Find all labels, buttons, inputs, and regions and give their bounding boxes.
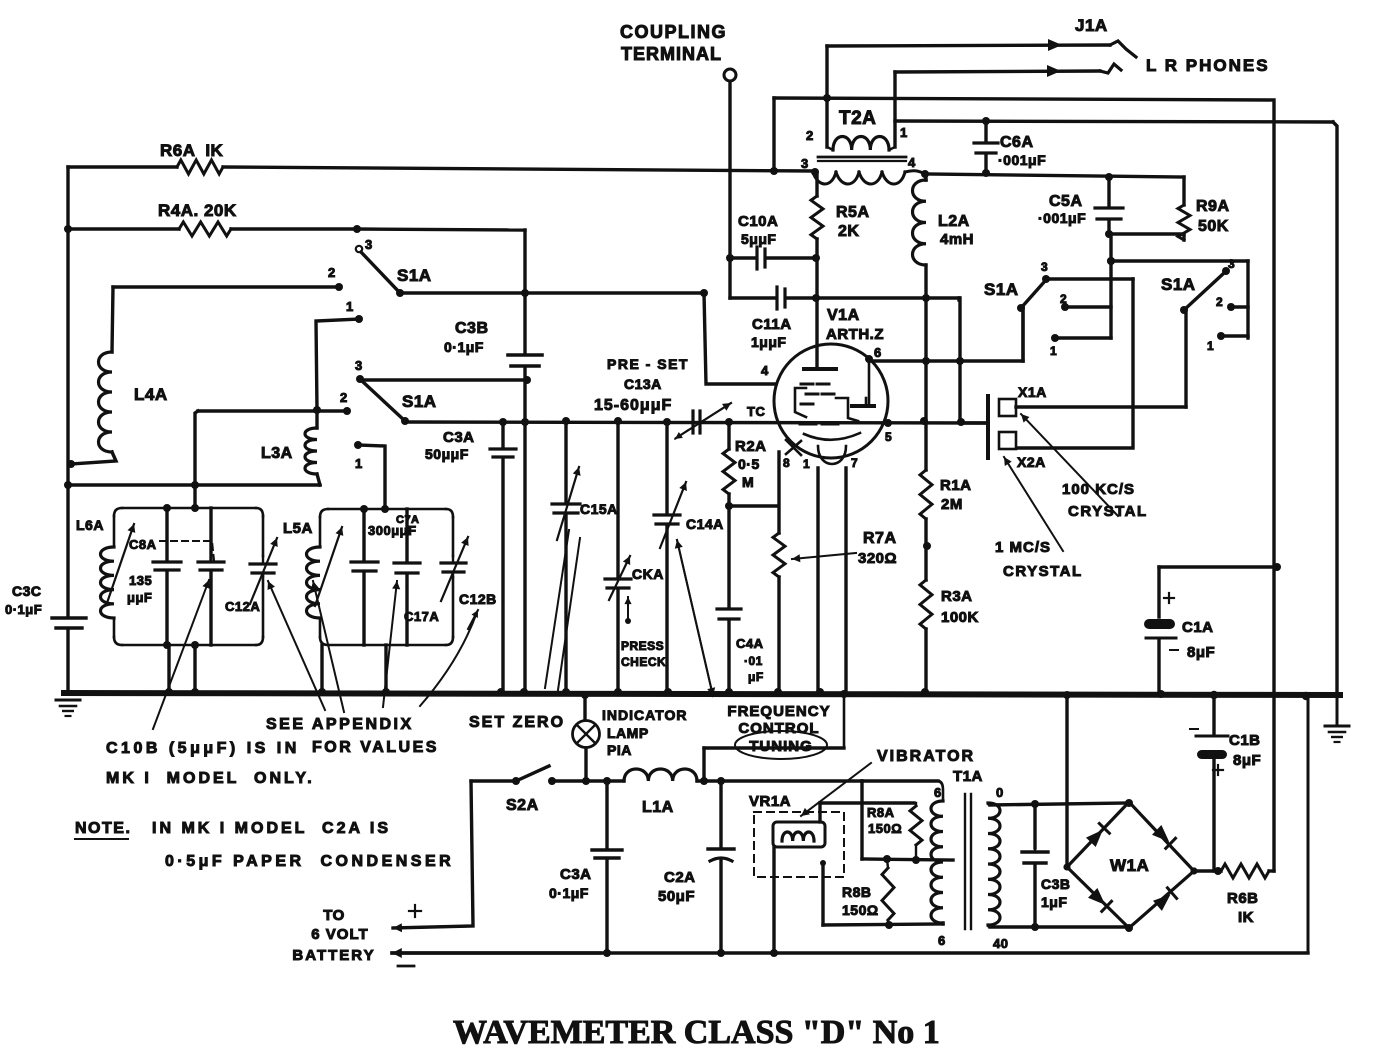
svg-text:IN MK I MODEL C2A IS: IN MK I MODEL C2A IS <box>152 820 391 837</box>
svg-text:0·1μF: 0·1μF <box>5 602 42 617</box>
svg-text:2: 2 <box>1060 292 1067 306</box>
svg-text:3: 3 <box>1228 257 1235 271</box>
svg-text:150Ω: 150Ω <box>868 821 902 836</box>
svg-text:1μμF: 1μμF <box>751 334 786 350</box>
svg-text:C10B (5μμF) IS IN: C10B (5μμF) IS IN <box>106 740 300 757</box>
svg-text:6: 6 <box>934 785 942 800</box>
svg-text:50μμF: 50μμF <box>425 446 469 462</box>
svg-text:BATTERY: BATTERY <box>292 947 375 964</box>
svg-text:L5A: L5A <box>283 520 313 537</box>
svg-text:7: 7 <box>851 456 858 470</box>
svg-text:6 VOLT: 6 VOLT <box>311 926 368 943</box>
svg-text:15-60μμF: 15-60μμF <box>594 397 672 414</box>
svg-text:2: 2 <box>328 265 336 280</box>
svg-text:4mH: 4mH <box>940 231 974 248</box>
svg-text:3: 3 <box>355 358 363 373</box>
svg-text:R4A. 20K: R4A. 20K <box>158 201 237 220</box>
svg-text:L R PHONES: L R PHONES <box>1146 56 1270 75</box>
svg-text:S1A: S1A <box>1161 275 1196 294</box>
svg-text:S2A: S2A <box>506 797 539 814</box>
svg-text:C3B: C3B <box>455 320 489 337</box>
svg-text:PRE - SET: PRE - SET <box>607 356 689 372</box>
svg-text:1 MC/S: 1 MC/S <box>995 539 1051 556</box>
svg-text:R6B: R6B <box>1227 890 1259 907</box>
svg-text:1: 1 <box>1050 344 1057 358</box>
svg-text:C10A: C10A <box>738 213 778 230</box>
svg-text:8μF: 8μF <box>1187 644 1215 661</box>
svg-text:C8A: C8A <box>129 537 157 552</box>
svg-text:150Ω: 150Ω <box>842 902 879 918</box>
svg-text:C3A: C3A <box>560 866 592 883</box>
svg-text:·01: ·01 <box>744 654 763 668</box>
svg-text:L4A: L4A <box>134 385 168 404</box>
svg-text:VIBRATOR: VIBRATOR <box>877 748 975 765</box>
svg-text:100 KC/S: 100 KC/S <box>1062 481 1135 498</box>
svg-text:C2A: C2A <box>664 869 696 886</box>
svg-text:CRYSTAL: CRYSTAL <box>1068 503 1148 520</box>
svg-text:50μF: 50μF <box>658 888 695 905</box>
svg-text:FOR VALUES: FOR VALUES <box>312 739 439 756</box>
svg-text:C11A: C11A <box>752 316 792 333</box>
svg-text:2: 2 <box>806 128 814 143</box>
svg-text:1: 1 <box>1207 339 1214 353</box>
svg-text:C17A: C17A <box>404 609 439 624</box>
svg-text:R9A: R9A <box>1196 198 1230 215</box>
svg-text:6: 6 <box>874 345 882 360</box>
svg-text:TERMINAL: TERMINAL <box>621 44 722 64</box>
svg-text:1: 1 <box>346 299 354 314</box>
svg-text:C12B: C12B <box>459 591 497 607</box>
svg-text:VR1A: VR1A <box>749 793 791 810</box>
svg-text:CHECK: CHECK <box>621 655 666 669</box>
svg-text:S1A: S1A <box>984 280 1019 299</box>
svg-text:135: 135 <box>129 573 152 588</box>
svg-text:R1A: R1A <box>940 477 972 494</box>
svg-text:0: 0 <box>996 785 1004 800</box>
svg-text:ARTH.Z: ARTH.Z <box>826 326 884 343</box>
svg-text:FREQUENCY: FREQUENCY <box>727 703 830 720</box>
svg-text:C14A: C14A <box>686 516 724 532</box>
svg-text:TO: TO <box>323 907 345 924</box>
svg-text:R5A: R5A <box>836 204 870 221</box>
svg-text:C1A: C1A <box>1182 619 1214 636</box>
svg-text:WAVEMETER CLASS "D" No 1: WAVEMETER CLASS "D" No 1 <box>453 1014 940 1051</box>
svg-text:R8A: R8A <box>867 805 895 820</box>
svg-text:R6A IK: R6A IK <box>160 141 224 160</box>
svg-text:SET ZERO: SET ZERO <box>469 714 565 731</box>
svg-text:L1A: L1A <box>642 799 674 816</box>
svg-text:MK I MODEL ONLY.: MK I MODEL ONLY. <box>106 770 315 787</box>
svg-text:0·5μF PAPER CONDENSER: 0·5μF PAPER CONDENSER <box>165 853 454 870</box>
svg-text:2: 2 <box>340 390 348 405</box>
svg-text:S1A: S1A <box>397 266 432 285</box>
svg-text:μμF: μμF <box>127 590 152 605</box>
svg-text:C15A: C15A <box>580 501 618 517</box>
svg-text:L6A: L6A <box>76 517 104 533</box>
svg-text:C4A: C4A <box>736 636 764 651</box>
svg-text:5: 5 <box>885 430 892 444</box>
svg-text:μF: μF <box>748 670 764 684</box>
svg-text:1μF: 1μF <box>1041 894 1067 910</box>
svg-text:320Ω: 320Ω <box>858 550 897 567</box>
svg-text:4: 4 <box>908 155 916 170</box>
svg-text:J1A: J1A <box>1075 16 1108 35</box>
svg-text:0·1μF: 0·1μF <box>549 885 589 901</box>
svg-text:0·5: 0·5 <box>738 456 760 472</box>
svg-text:T2A: T2A <box>839 108 876 129</box>
svg-text:8: 8 <box>783 456 790 470</box>
svg-text:1: 1 <box>900 125 908 140</box>
svg-text:W1A: W1A <box>1110 856 1149 875</box>
svg-text:R3A: R3A <box>941 588 973 605</box>
svg-text:R8B: R8B <box>842 884 872 900</box>
svg-text:300μμF: 300μμF <box>368 523 417 538</box>
svg-text:3: 3 <box>801 156 809 171</box>
svg-text:40: 40 <box>993 936 1008 951</box>
svg-text:IK: IK <box>1238 909 1254 926</box>
svg-text:PRESS: PRESS <box>621 639 664 653</box>
svg-text:3: 3 <box>1041 260 1048 274</box>
svg-text:TC: TC <box>747 404 765 419</box>
svg-text:3: 3 <box>365 237 373 252</box>
svg-text:C1B: C1B <box>1229 732 1261 749</box>
svg-text:·001μF: ·001μF <box>1038 210 1086 226</box>
svg-text:NOTE.: NOTE. <box>75 820 131 837</box>
svg-text:INDICATOR: INDICATOR <box>602 707 687 723</box>
svg-text:5μμF: 5μμF <box>741 231 776 247</box>
svg-text:TUNING: TUNING <box>749 738 813 755</box>
svg-text:2K: 2K <box>838 223 859 240</box>
svg-text:100K: 100K <box>941 609 979 626</box>
svg-text:COUPLING: COUPLING <box>620 22 727 42</box>
svg-text:4: 4 <box>761 363 769 378</box>
svg-text:0·1μF: 0·1μF <box>444 339 484 355</box>
svg-text:1: 1 <box>355 456 363 471</box>
svg-text:2: 2 <box>1216 295 1223 309</box>
svg-text:C3A: C3A <box>443 429 475 446</box>
svg-text:X2A: X2A <box>1017 454 1046 470</box>
svg-text:V1A: V1A <box>827 307 860 324</box>
svg-text:·001μF: ·001μF <box>998 152 1046 168</box>
svg-text:6: 6 <box>938 933 946 948</box>
svg-text:PIA: PIA <box>607 742 632 758</box>
svg-text:R7A: R7A <box>863 530 897 547</box>
svg-text:C12A: C12A <box>225 599 260 614</box>
svg-text:T1A: T1A <box>953 768 983 785</box>
svg-text:L3A: L3A <box>261 445 293 462</box>
svg-text:CKA: CKA <box>632 566 664 582</box>
svg-text:LAMP: LAMP <box>607 725 649 741</box>
svg-text:C3B: C3B <box>1041 876 1071 892</box>
svg-text:R2A: R2A <box>735 438 767 455</box>
svg-text:C5A: C5A <box>1049 193 1083 210</box>
svg-text:8μF: 8μF <box>1233 752 1261 769</box>
svg-text:1: 1 <box>803 457 810 471</box>
svg-text:C6A: C6A <box>1000 134 1034 151</box>
svg-text:X1A: X1A <box>1018 384 1047 400</box>
svg-text:M: M <box>742 474 754 490</box>
svg-text:CRYSTAL: CRYSTAL <box>1003 563 1083 580</box>
svg-text:50K: 50K <box>1198 218 1229 235</box>
svg-text:SEE APPENDIX: SEE APPENDIX <box>266 716 414 733</box>
svg-text:C3C: C3C <box>12 583 42 599</box>
svg-text:C13A: C13A <box>624 376 662 392</box>
svg-text:L2A: L2A <box>938 213 970 230</box>
svg-text:2M: 2M <box>941 496 963 513</box>
svg-text:S1A: S1A <box>402 392 437 411</box>
